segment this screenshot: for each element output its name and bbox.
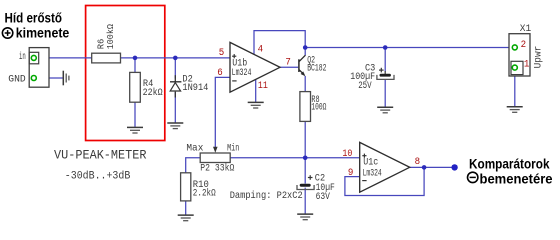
- ground (under R4): [127, 127, 143, 133]
- wire: U1c output to terminal: [410, 166, 452, 168]
- svg-text:Damping: P2xC2: Damping: P2xC2: [230, 190, 303, 202]
- svg-text:in: in: [19, 51, 26, 63]
- svg-text:4: 4: [258, 45, 264, 56]
- ground (under C2): [297, 214, 313, 220]
- ground (under R10): [178, 215, 194, 221]
- wire: in pin to R6: [36, 57, 91, 59]
- wire: U1b pin 4 supply loop: [254, 31, 305, 55]
- resistor R10: [181, 173, 191, 201]
- wire: U1b - input to P2 wiper: [215, 77, 229, 147]
- op-amp U1c: [360, 142, 410, 192]
- svg-text:Komparátorok: Komparátorok: [469, 157, 550, 172]
- wire: R10 to ground: [185, 201, 187, 215]
- ground (U1b pin 11): [248, 102, 264, 108]
- wire: supply rail to X1 pin 2: [305, 47, 512, 49]
- ground (under C3): [377, 107, 393, 113]
- capacitor C3: [377, 68, 394, 80]
- wire: Q2 emitter to R8: [304, 76, 306, 92]
- wire: U1b output to Q2 base: [280, 66, 298, 68]
- title text "Híd erőstő kimenete": [2, 11, 69, 41]
- svg-text:bemenetére: bemenetére: [480, 171, 553, 186]
- svg-text:7: 7: [285, 58, 291, 69]
- wire: GND pin to ground: [36, 77, 62, 79]
- svg-text:100kΩ: 100kΩ: [105, 24, 116, 50]
- svg-text:Min: Min: [227, 143, 239, 155]
- svg-text:Max: Max: [186, 143, 203, 155]
- wire: X1 pin 1 to ground: [514, 70, 516, 106]
- svg-text:22kΩ: 22kΩ: [143, 87, 163, 99]
- annotation "Komparátorok bemenetére": [468, 157, 553, 187]
- ground (under X1): [507, 107, 523, 113]
- svg-text:6: 6: [217, 68, 223, 79]
- transistor Q2: [299, 55, 306, 76]
- wire: R6 to U1b + input (node A): [121, 57, 230, 59]
- svg-text:BC182: BC182: [307, 62, 326, 74]
- svg-text:63V: 63V: [316, 191, 331, 203]
- svg-text:2.2kΩ: 2.2kΩ: [193, 187, 216, 199]
- wire: rail to C3: [384, 48, 386, 72]
- ground (under D2): [167, 123, 183, 129]
- svg-text:2: 2: [521, 40, 527, 51]
- capacitor C2: [297, 175, 314, 189]
- wire: node A down to R4: [134, 58, 136, 73]
- resistor R4: [130, 72, 141, 102]
- wire: R4 to ground: [134, 102, 136, 127]
- wire: C2 to ground: [304, 188, 306, 214]
- svg-text:GND: GND: [8, 74, 25, 86]
- wire: node to D2 cathode: [174, 58, 176, 79]
- red highlight box around R6/R4: [86, 6, 165, 141]
- svg-text:8: 8: [415, 157, 421, 168]
- svg-text:1N914: 1N914: [182, 82, 208, 94]
- wire: P2 left to R10: [186, 158, 201, 173]
- svg-text:9: 9: [348, 168, 354, 179]
- svg-text:-30dB..+3dB: -30dB..+3dB: [65, 170, 131, 182]
- svg-text:1: 1: [524, 60, 530, 71]
- wire: U1b pin 11 to ground: [255, 80, 257, 102]
- svg-text:kimenete: kimenete: [16, 26, 70, 41]
- connector X1: [509, 34, 530, 76]
- svg-text:Upwr: Upwr: [533, 46, 545, 69]
- svg-text:Lm324: Lm324: [363, 167, 382, 179]
- svg-text:X1: X1: [520, 23, 531, 35]
- wire: Q2 collector to rail: [304, 48, 306, 56]
- svg-text:VU-PEAK-METER: VU-PEAK-METER: [54, 148, 147, 163]
- junction C3 tap: [383, 45, 388, 50]
- wire: U1c feedback loop output to pin 9: [345, 167, 424, 195]
- wire: C3 to ground: [384, 79, 386, 106]
- diode D2: [170, 75, 181, 97]
- ground (input GND, rotated): [63, 71, 69, 86]
- resistor R6: [92, 53, 121, 63]
- resistor R8: [300, 92, 311, 122]
- svg-text:100Ω: 100Ω: [311, 102, 326, 114]
- potentiometer P2: [200, 147, 230, 163]
- svg-text:25V: 25V: [358, 80, 372, 92]
- junction collector/rail: [303, 45, 308, 50]
- svg-text:P2 33kΩ: P2 33kΩ: [200, 162, 234, 174]
- junction U1c feedback: [422, 165, 427, 170]
- svg-text:Lm324: Lm324: [232, 67, 252, 79]
- wire: R8 down through node B to C2: [304, 121, 306, 183]
- junction node A2 (D2 tap): [173, 56, 178, 61]
- connector J1 (input): [29, 48, 49, 88]
- op-amp U1b: [230, 42, 280, 92]
- output terminal dot: [451, 164, 457, 170]
- junction node A1 (R4 tap): [133, 56, 138, 61]
- wire: D2 anode to ground: [174, 92, 176, 123]
- svg-text:11: 11: [258, 81, 268, 92]
- svg-text:10: 10: [342, 149, 352, 160]
- junction node B: [303, 156, 308, 161]
- svg-text:Híd erőstő: Híd erőstő: [5, 11, 63, 26]
- wire: node B horizontal P2 to U1c + input: [230, 157, 359, 159]
- svg-text:5: 5: [219, 48, 225, 59]
